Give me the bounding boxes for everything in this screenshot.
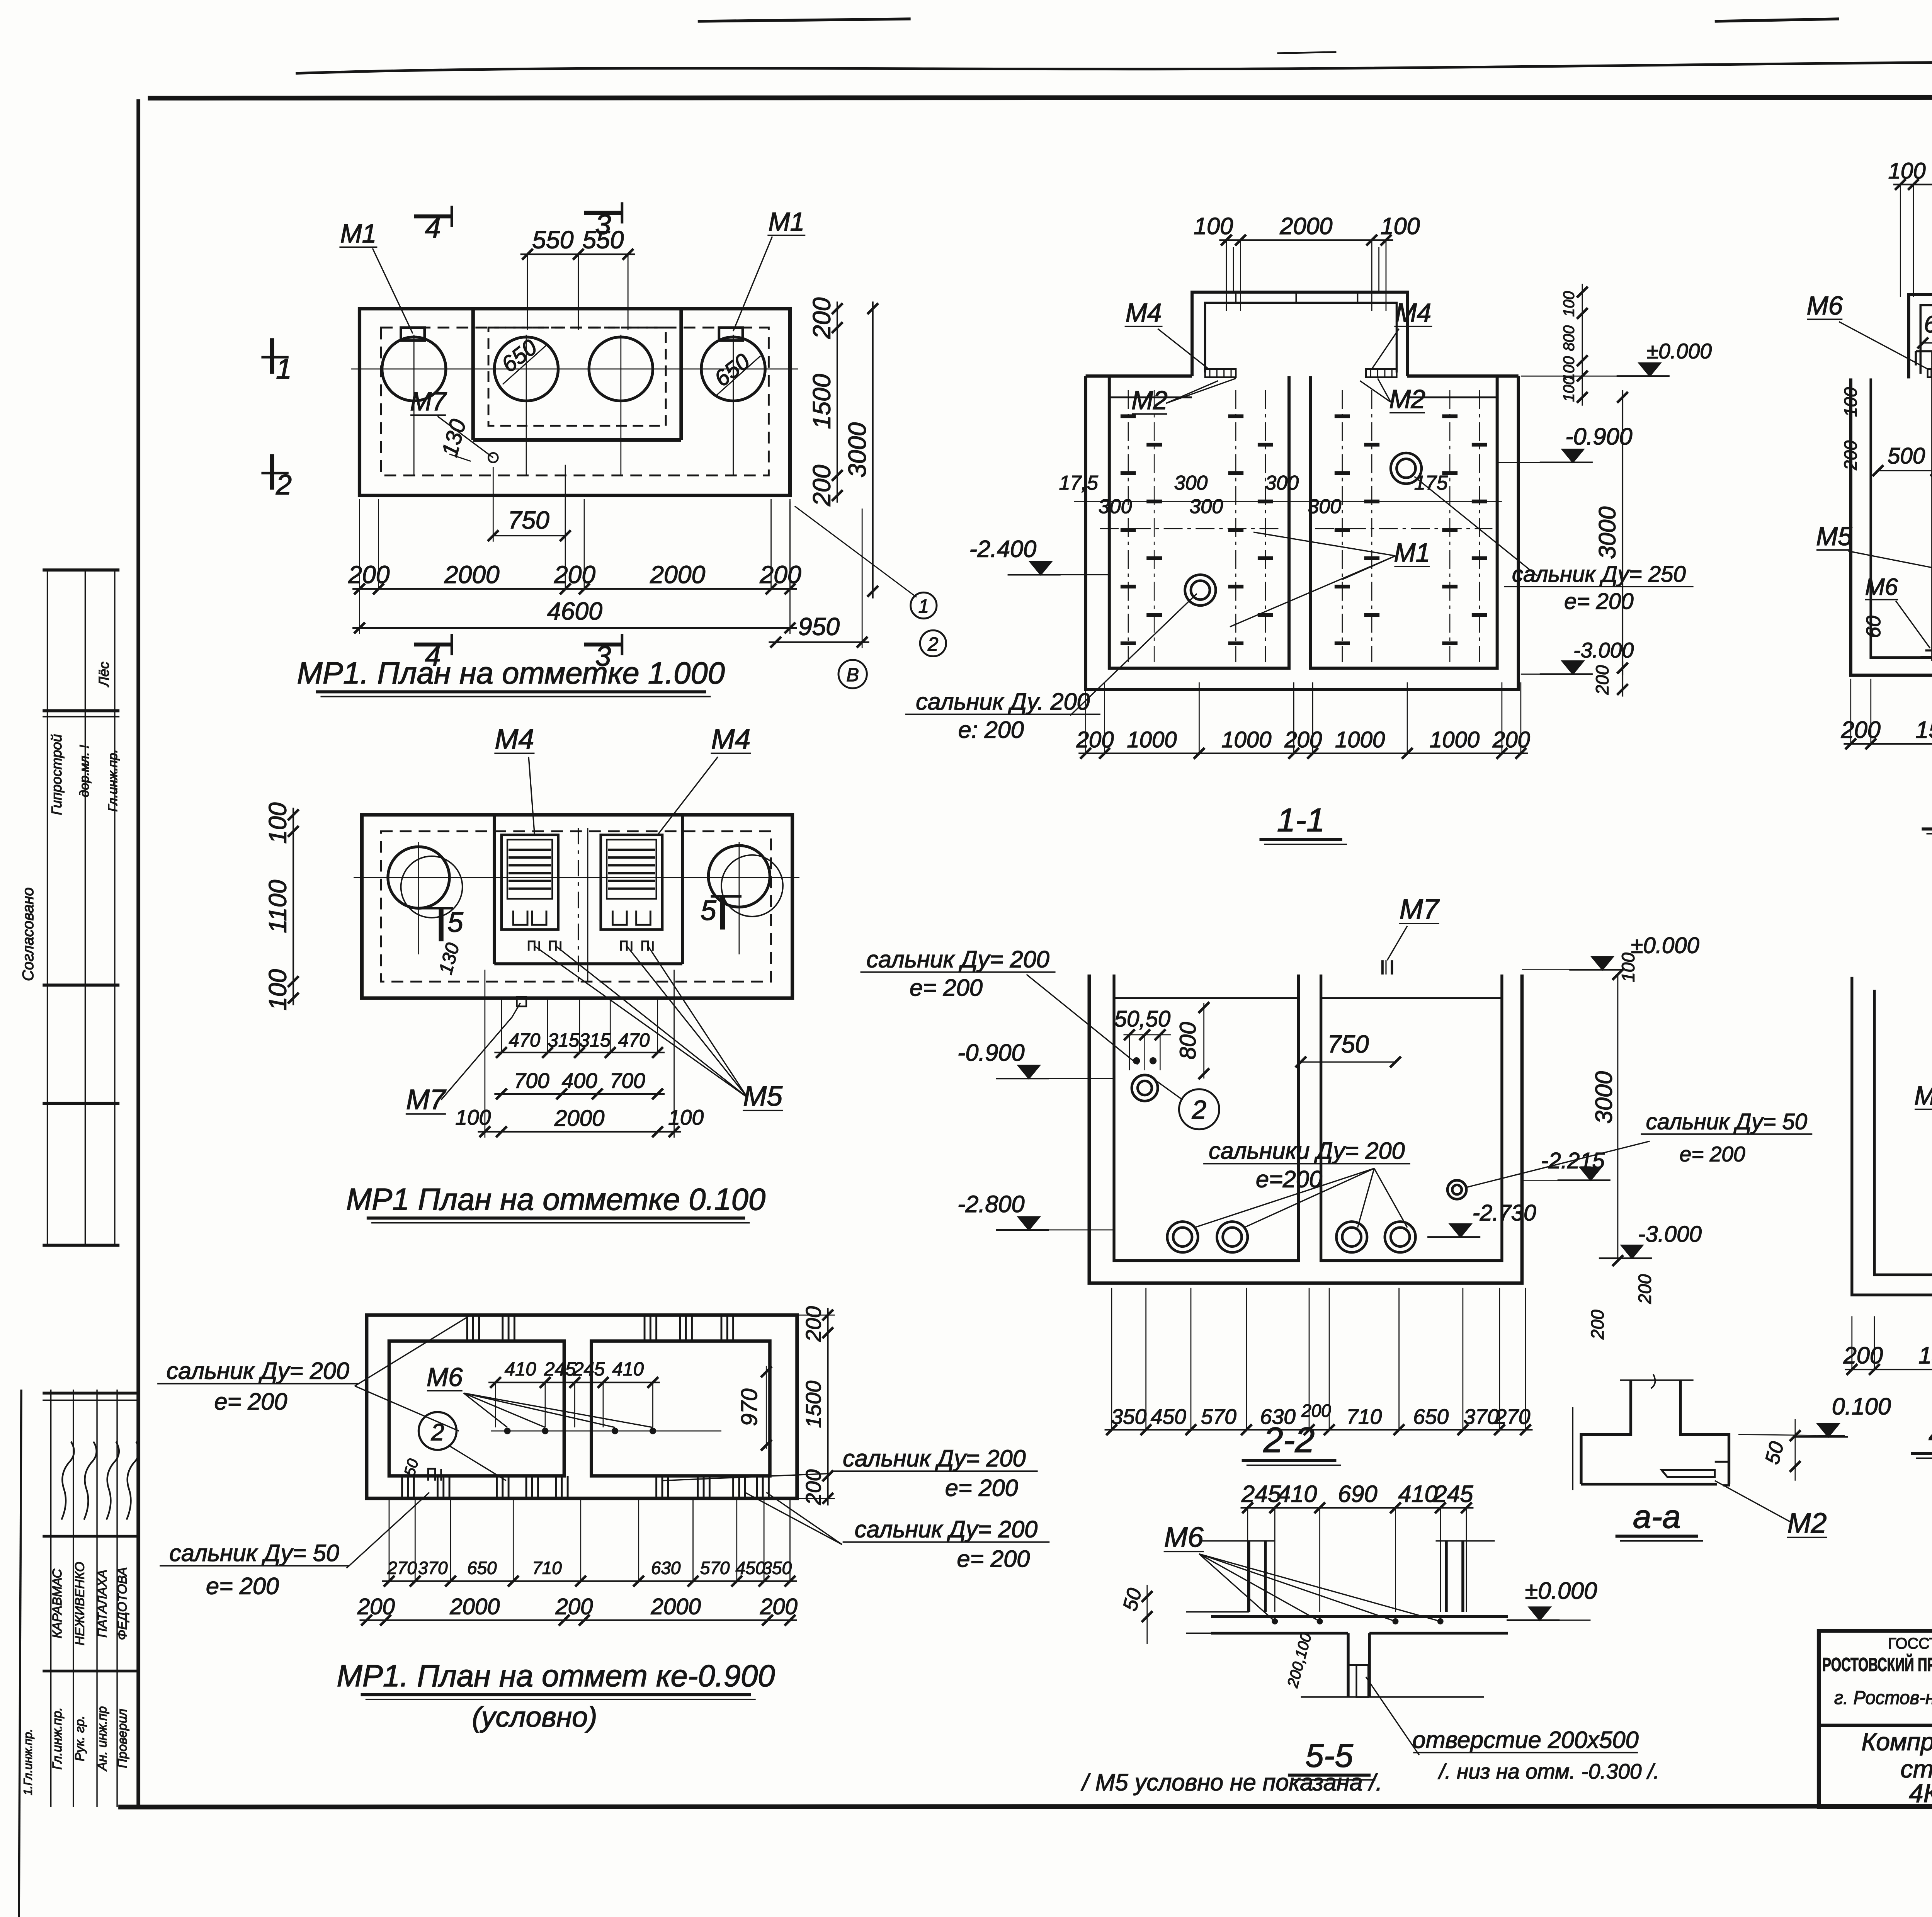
svg-text:410: 410 [505,1359,536,1379]
svg-text:1500: 1500 [1915,717,1932,743]
svg-text:3000: 3000 [1594,507,1621,559]
svg-text:200: 200 [808,297,836,339]
svg-text:М4: М4 [711,723,750,755]
svg-text:200: 200 [760,1594,798,1619]
svg-text:100: 100 [1840,387,1861,417]
svg-text:17,5: 17,5 [1059,472,1099,494]
svg-text:4-4: 4-4 [1929,1415,1932,1453]
svg-text:200: 200 [808,464,836,506]
svg-text:4: 4 [425,212,441,244]
svg-text:200: 200 [759,561,801,589]
svg-text:470: 470 [509,1030,541,1051]
svg-text:КАРАВМАС: КАРАВМАС [50,1568,65,1638]
svg-text:410: 410 [1277,1481,1317,1507]
svg-text:М6: М6 [427,1363,463,1392]
svg-text:100: 100 [1618,953,1638,982]
svg-text:300: 300 [1099,495,1132,518]
svg-text:1500: 1500 [801,1381,825,1428]
svg-text:1000: 1000 [1127,727,1177,752]
svg-text:/ М5 условно не показана /.: / М5 условно не показана /. [1081,1769,1383,1796]
svg-text:2000: 2000 [650,1594,701,1619]
svg-text:/. низ на отм. -0.300 /.: /. низ на отм. -0.300 /. [1437,1759,1659,1783]
svg-text:300: 300 [1174,472,1208,494]
svg-text:450: 450 [736,1558,765,1578]
svg-text:1.Гл.инж.пр.: 1.Гл.инж.пр. [22,1729,35,1795]
svg-text:750: 750 [1327,1030,1369,1058]
svg-text:100: 100 [264,969,292,1010]
svg-text:1500: 1500 [808,374,836,429]
svg-text:М5: М5 [743,1080,783,1112]
svg-text:Лёс: Лёс [96,662,112,687]
svg-text:315: 315 [579,1030,611,1051]
svg-text:Ан. инж.пр: Ан. инж.пр [95,1706,110,1772]
svg-text:60: 60 [1924,311,1932,337]
svg-text:М5: М5 [1816,522,1852,551]
svg-text:100: 100 [1561,376,1578,402]
svg-text:570: 570 [1201,1405,1236,1429]
svg-text:a-a: a-a [1633,1498,1681,1535]
svg-text:е= 200: е= 200 [214,1388,287,1415]
svg-text:сальники Ду= 200: сальники Ду= 200 [1209,1138,1405,1164]
svg-text:100: 100 [455,1105,491,1129]
svg-text:М7: М7 [410,387,447,416]
svg-text:Гл.инж.пр.: Гл.инж.пр. [50,1707,65,1770]
svg-text:2000: 2000 [650,561,705,589]
svg-text:2: 2 [1192,1095,1206,1124]
svg-text:750: 750 [508,506,549,534]
svg-text:2000: 2000 [1279,213,1332,239]
svg-text:270: 270 [387,1558,417,1578]
svg-text:200: 200 [1843,1342,1883,1369]
svg-text:2000: 2000 [449,1594,500,1619]
svg-text:МР1. План на отметке 1.000: МР1. План на отметке 1.000 [297,656,724,690]
svg-text:М4: М4 [1126,298,1162,327]
svg-text:410: 410 [612,1359,644,1379]
svg-text:сальник Ду= 200: сальник Ду= 200 [167,1357,349,1384]
svg-text:200: 200 [1841,717,1881,743]
svg-text:сальник Ду= 50: сальник Ду= 50 [169,1540,339,1566]
svg-text:(условно): (условно) [472,1701,597,1733]
svg-text:200: 200 [1840,441,1861,471]
svg-text:200: 200 [801,1306,825,1342]
svg-text:800: 800 [1561,325,1578,351]
svg-text:1-1: 1-1 [1277,802,1325,839]
svg-text:300: 300 [1189,495,1223,518]
svg-text:410: 410 [1398,1481,1438,1507]
svg-text:200: 200 [1592,665,1612,695]
svg-text:350: 350 [1111,1405,1146,1429]
svg-text:0.100: 0.100 [1832,1393,1891,1419]
svg-text:ФЕДОТОВА: ФЕДОТОВА [116,1567,130,1640]
svg-text:е= 200: е= 200 [1680,1142,1745,1166]
svg-text:В: В [846,665,859,685]
svg-text:4600: 4600 [547,597,602,625]
svg-text:1100: 1100 [264,879,292,933]
svg-text:сальник Ду= 200: сальник Ду= 200 [866,946,1049,972]
svg-text:245: 245 [1433,1481,1473,1507]
svg-text:е= 200: е= 200 [957,1546,1030,1572]
svg-text:650: 650 [1413,1405,1449,1429]
svg-text:Проверил: Проверил [116,1709,130,1768]
svg-text:НЕЖИВЕНКО: НЕЖИВЕНКО [73,1562,87,1646]
svg-text:ГОССТРОЙ СССР: ГОССТРОЙ СССР [1888,1634,1932,1652]
svg-text:М1: М1 [1914,1081,1932,1110]
svg-text:-0.900: -0.900 [957,1039,1025,1066]
svg-text:100: 100 [1194,213,1233,239]
svg-text:РОСТОВСКИЙ ПРОМСТРОЙНИИПРОЕКТ: РОСТОВСКИЙ ПРОМСТРОЙНИИПРОЕКТ [1822,1654,1932,1675]
svg-text:Компрессорная: Компрессорная [1861,1728,1932,1755]
svg-text:200: 200 [1492,727,1530,752]
svg-text:е= 200: е= 200 [1564,589,1633,614]
svg-text:Согласовано: Согласовано [20,887,37,981]
svg-text:200: 200 [357,1594,395,1619]
svg-text:400: 400 [562,1069,597,1093]
svg-text:315: 315 [548,1030,580,1051]
svg-text:245: 245 [573,1359,605,1379]
svg-text:500: 500 [1888,444,1925,469]
svg-text:350: 350 [762,1558,792,1578]
svg-text:550: 550 [582,226,624,254]
svg-text:100: 100 [1888,158,1926,184]
svg-text:±0.000: ±0.000 [1525,1578,1597,1604]
svg-text:2: 2 [927,634,938,655]
svg-text:е= 200: е= 200 [910,975,983,1001]
svg-text:200: 200 [1284,727,1322,752]
svg-text:е: 200: е: 200 [958,717,1024,743]
svg-text:2: 2 [276,469,292,500]
svg-text:60: 60 [1862,616,1885,638]
svg-text:370: 370 [1463,1405,1499,1429]
svg-text:М6: М6 [1164,1521,1204,1553]
svg-text:300: 300 [1308,495,1341,518]
svg-text:-2.730: -2.730 [1473,1200,1536,1225]
svg-text:1000: 1000 [1430,727,1480,752]
svg-text:-2.400: -2.400 [969,536,1037,562]
svg-text:175: 175 [1414,472,1448,494]
svg-text:970: 970 [737,1388,762,1426]
svg-text:Гипрострой: Гипрострой [49,734,65,815]
svg-text:3000: 3000 [843,422,871,478]
svg-text:М4: М4 [1395,298,1432,327]
svg-text:5: 5 [701,895,717,926]
svg-text:200: 200 [555,1594,593,1619]
svg-text:50,50: 50,50 [1114,1006,1170,1031]
svg-text:700: 700 [514,1069,549,1093]
svg-text:100: 100 [264,802,292,844]
svg-text:200: 200 [1076,727,1114,752]
svg-text:г. Ростов-на-Дону 1959 г.: г. Ростов-на-Дону 1959 г. [1834,1687,1932,1708]
svg-text:М2: М2 [1389,385,1425,414]
svg-text:сальник Ду= 250: сальник Ду= 250 [1512,562,1686,587]
svg-text:2-2: 2-2 [1263,1420,1315,1460]
svg-text:200: 200 [1301,1400,1331,1420]
svg-text:690: 690 [1338,1481,1377,1507]
svg-text:630: 630 [651,1558,681,1578]
svg-text:сальник Ду= 50: сальник Ду= 50 [1646,1109,1807,1135]
svg-text:М2: М2 [1131,386,1168,415]
svg-text:1000: 1000 [1221,727,1271,752]
svg-text:Гл.инж.пр.: Гл.инж.пр. [106,749,120,812]
svg-text:1500: 1500 [1918,1342,1932,1369]
svg-text:650: 650 [467,1558,497,1578]
svg-text:550: 550 [532,226,573,254]
svg-text:245: 245 [1241,1481,1281,1507]
svg-text:570: 570 [700,1558,730,1578]
svg-text:МР1 План на отметке 0.100: МР1 План на отметке 0.100 [346,1182,765,1216]
svg-text:М1: М1 [1394,539,1430,568]
svg-text:сальник Ду= 200: сальник Ду= 200 [843,1445,1026,1471]
svg-text:е= 200: е= 200 [206,1573,279,1599]
svg-text:200: 200 [348,561,389,589]
svg-text:4К-30А: 4К-30А [1909,1779,1932,1808]
svg-text:М6: М6 [1807,291,1843,320]
svg-text:2000: 2000 [554,1106,604,1131]
svg-text:700: 700 [610,1069,645,1093]
svg-text:300: 300 [1265,472,1299,494]
svg-text:ПАТАЛАХА: ПАТАЛАХА [95,1570,110,1638]
svg-text:245: 245 [544,1359,576,1379]
svg-text:е= 200: е= 200 [945,1475,1018,1501]
svg-text:370: 370 [418,1558,448,1578]
svg-text:5-5: 5-5 [1305,1737,1353,1774]
svg-text:100: 100 [668,1105,704,1129]
svg-text:270: 270 [1494,1405,1530,1429]
svg-text:Рук. гр.: Рук. гр. [73,1716,87,1762]
svg-text:М7: М7 [1400,893,1440,925]
svg-text:710: 710 [1346,1405,1382,1429]
svg-text:сальник Ду= 200: сальник Ду= 200 [855,1516,1037,1543]
svg-text:950: 950 [798,612,840,640]
svg-text:сальник Ду. 200: сальник Ду. 200 [916,688,1090,714]
svg-text:470: 470 [618,1030,650,1051]
svg-text:1000: 1000 [1335,727,1385,752]
svg-text:М7: М7 [406,1084,447,1116]
svg-text:±0.000: ±0.000 [1631,933,1699,958]
svg-text:3000: 3000 [1590,1071,1617,1124]
svg-text:1: 1 [918,596,929,617]
svg-text:2000: 2000 [444,561,500,589]
svg-text:200: 200 [1634,1274,1655,1304]
svg-text:М1: М1 [340,219,377,248]
svg-text:100: 100 [1561,291,1578,316]
svg-text:800: 800 [1175,1022,1201,1060]
svg-text:-3.000: -3.000 [1638,1221,1702,1247]
svg-text:1: 1 [276,353,292,384]
svg-text:М4: М4 [495,723,534,755]
svg-text:дор.мл. !: дор.мл. ! [78,745,92,797]
svg-text:200: 200 [1587,1310,1607,1340]
svg-text:-2.800: -2.800 [957,1191,1025,1217]
svg-text:станция: станция [1900,1755,1932,1783]
svg-text:М1: М1 [769,208,805,236]
svg-text:±0.000: ±0.000 [1647,339,1712,363]
svg-text:710: 710 [532,1558,562,1578]
svg-text:-3.000: -3.000 [1573,638,1634,662]
svg-text:5: 5 [447,907,464,938]
svg-text:М6: М6 [1865,573,1898,600]
svg-text:МР1. План на отмет ке-0.900: МР1. План на отмет ке-0.900 [337,1658,775,1693]
svg-text:М2: М2 [1787,1507,1827,1539]
svg-text:450: 450 [1151,1405,1186,1429]
svg-text:отверстие 200х500: отверстие 200х500 [1413,1726,1639,1753]
svg-text:100: 100 [1381,213,1420,239]
svg-text:200: 200 [554,561,595,589]
